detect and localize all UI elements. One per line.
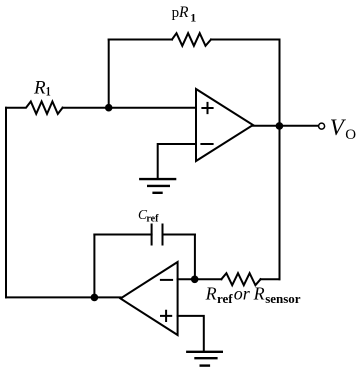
label R1 bbox=[33, 77, 51, 98]
svg-text:O: O bbox=[345, 127, 356, 143]
svg-text:1: 1 bbox=[190, 10, 196, 24]
wire right vertical bbox=[279, 40, 281, 280]
label pR1 bbox=[172, 4, 197, 25]
label VO bbox=[330, 115, 357, 143]
wire R1 to op-amp + input bbox=[63, 107, 196, 109]
op-amp U2 bbox=[121, 262, 178, 335]
svg-text:ref: ref bbox=[217, 291, 233, 306]
node U2 minus junction dot bbox=[191, 276, 199, 284]
wire capacitor left lead bbox=[94, 234, 151, 236]
wire feedback right vertical bbox=[194, 235, 196, 280]
node junction dot left bbox=[105, 104, 113, 112]
op-amp U2 plus input sign bbox=[161, 311, 171, 321]
op-amp U1 minus input sign bbox=[201, 143, 212, 145]
label Cref bbox=[138, 207, 159, 224]
wire U1 output bbox=[253, 125, 319, 127]
node U2 output junction dot bbox=[91, 294, 99, 302]
svg-text:R: R bbox=[178, 4, 189, 21]
svg-text:ref: ref bbox=[146, 213, 159, 224]
wire top left segment bbox=[109, 39, 172, 41]
svg-text:or: or bbox=[234, 284, 251, 304]
wire bottom right corner to resistor bbox=[261, 278, 280, 280]
resistor Rref/Rsensor bbox=[221, 273, 260, 285]
svg-text:p: p bbox=[172, 5, 180, 21]
wire U1 minus input to ground bbox=[158, 144, 196, 178]
svg-text:R: R bbox=[205, 284, 217, 304]
wire junction up to top feedback bbox=[108, 40, 110, 108]
label Rref or Rsensor bbox=[205, 284, 301, 306]
wire resistor to U2 minus node bbox=[178, 278, 222, 280]
op-amp U1 plus input sign bbox=[202, 103, 212, 113]
svg-text:R: R bbox=[33, 77, 46, 98]
svg-text:R: R bbox=[253, 284, 265, 304]
ground bottom bbox=[187, 352, 222, 366]
terminal VO circle bbox=[319, 123, 325, 129]
wire U2 plus input to ground bbox=[178, 316, 204, 351]
capacitor Cref bbox=[152, 225, 163, 245]
resistor pR1 bbox=[172, 33, 211, 46]
wire capacitor right lead bbox=[163, 234, 195, 236]
wire top right segment bbox=[211, 39, 280, 41]
wire bottom output segment bbox=[6, 296, 121, 298]
svg-text:1: 1 bbox=[46, 84, 51, 99]
svg-text:V: V bbox=[330, 115, 347, 140]
op-amp U1 bbox=[196, 89, 253, 161]
svg-text:sensor: sensor bbox=[265, 291, 301, 306]
op-amp U2 minus input sign bbox=[161, 279, 172, 281]
resistor R1 bbox=[6, 102, 63, 114]
node output junction dot bbox=[276, 122, 284, 130]
ground top bbox=[140, 179, 175, 193]
wire feedback left vertical bbox=[93, 235, 95, 298]
wire left vertical bbox=[5, 108, 7, 298]
